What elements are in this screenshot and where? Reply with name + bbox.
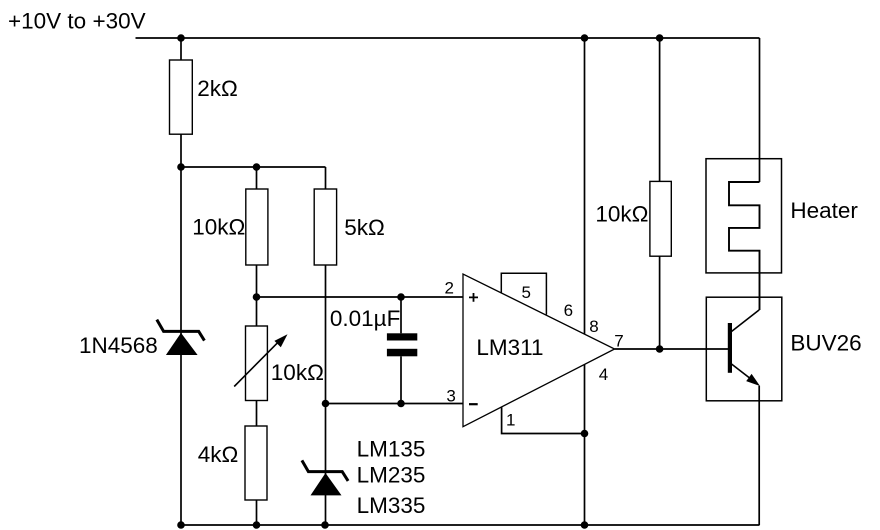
resistor R2 10k body <box>246 189 268 265</box>
potentiometer arrow shaft <box>234 340 280 387</box>
wire LM135 branch to ground rail <box>325 404 327 526</box>
wire pin2 horizontal <box>257 296 464 298</box>
node junction pin1 <box>581 430 589 438</box>
svg-text:Heater: Heater <box>790 198 858 223</box>
wire 10k left bottom <box>256 265 258 297</box>
wire pot to 4k <box>256 401 258 427</box>
wire 10k right bottom <box>659 256 661 349</box>
wire top supply rail <box>136 37 760 39</box>
wire node2 horizontal <box>181 166 326 168</box>
op-amp plus input marker <box>469 293 478 302</box>
node junction left node2 <box>177 163 185 171</box>
wire op-amp output <box>615 348 730 350</box>
wire 5k stub <box>325 167 327 189</box>
op-amp U1 LM311 triangle <box>463 274 615 427</box>
resistor R5 4k body <box>245 426 267 500</box>
node junction top-left <box>177 34 185 42</box>
wire 10k left stub <box>256 167 258 189</box>
transistor Q1 emitter down wire <box>758 386 760 525</box>
potentiometer arrowhead <box>274 334 287 347</box>
svg-text:5: 5 <box>521 283 530 302</box>
sensor LM135 triangle <box>311 473 342 495</box>
svg-text:7: 7 <box>614 331 623 350</box>
node junction output <box>656 345 664 353</box>
node junction 10k top <box>253 163 261 171</box>
wire bottom ground rail <box>181 524 760 526</box>
svg-text:4: 4 <box>599 365 608 384</box>
sensor LM135 cathode bar <box>302 460 348 481</box>
wire pin8/4 rail lower <box>584 365 586 526</box>
heater element meander <box>729 182 760 310</box>
svg-text:10kΩ: 10kΩ <box>271 360 324 385</box>
resistor R1 2k body <box>170 60 193 134</box>
node junction pot top / pin2 wire <box>253 293 261 301</box>
wire pot stub top <box>256 297 258 326</box>
wire 4k bottom <box>256 500 258 525</box>
wire pin3 horizontal <box>326 403 464 405</box>
wire left rail middle <box>180 134 182 525</box>
wire pin1 stub <box>502 407 585 433</box>
zener diode D1 1N4568 cathode bar <box>157 320 205 341</box>
svg-text:6: 6 <box>564 301 573 320</box>
op-amp minus input marker <box>469 403 478 405</box>
svg-text:8: 8 <box>589 317 598 336</box>
node junction bottom left <box>177 521 185 529</box>
svg-text:LM311: LM311 <box>476 335 543 360</box>
svg-text:4kΩ: 4kΩ <box>198 442 239 467</box>
svg-text:5kΩ: 5kΩ <box>344 215 385 240</box>
svg-text:1N4568: 1N4568 <box>79 333 158 358</box>
svg-text:+10V to +30V: +10V to +30V <box>8 9 146 34</box>
potentiometer R4 10k body <box>246 326 268 401</box>
transistor Q1 collector diagonal <box>732 310 760 332</box>
svg-text:2kΩ: 2kΩ <box>197 76 238 101</box>
svg-text:10kΩ: 10kΩ <box>192 215 245 240</box>
capacitor C1 top wire <box>400 297 402 333</box>
svg-text:LM235: LM235 <box>357 462 426 487</box>
svg-text:0.01µF: 0.01µF <box>330 306 401 331</box>
wire pin8/4 rail upper <box>584 38 586 334</box>
transistor Q1 box <box>706 297 782 401</box>
svg-text:3: 3 <box>446 387 455 406</box>
wire 10k right top <box>659 38 661 181</box>
svg-text:BUV26: BUV26 <box>790 330 861 355</box>
heater box <box>706 159 782 273</box>
node junction cap bottom <box>397 400 405 408</box>
node junction bottom LM135 <box>321 521 329 529</box>
transistor Q1 base bar <box>728 323 732 373</box>
svg-text:LM135: LM135 <box>357 437 426 462</box>
wire left rail upper stub <box>180 38 182 60</box>
svg-text:1: 1 <box>506 411 515 430</box>
capacitor C1 bottom plate <box>387 349 417 357</box>
resistor R3 5k body <box>314 189 336 265</box>
svg-text:LM335: LM335 <box>357 493 426 518</box>
node junction bottom pin4 rail <box>581 521 589 529</box>
node junction cap top <box>397 293 405 301</box>
wire 5k bottom to pin3 rail <box>325 265 327 404</box>
transistor Q1 emitter arrowhead <box>746 374 760 386</box>
resistor R6 10k body <box>650 181 671 256</box>
svg-text:2: 2 <box>445 278 454 297</box>
capacitor C1 bottom wire <box>400 356 402 403</box>
svg-text:10kΩ: 10kΩ <box>595 201 648 226</box>
wire heater feed from top rail <box>759 38 761 182</box>
zener diode D1 triangle <box>166 333 198 355</box>
node junction top pin8 rail <box>581 34 589 42</box>
pin 5 balance box <box>501 273 546 314</box>
node junction bottom 4k <box>253 521 261 529</box>
transistor Q1 emitter diagonal <box>732 364 758 384</box>
node junction top 10k right <box>656 34 664 42</box>
node junction pin3 / LM135 <box>322 400 330 408</box>
capacitor C1 top plate <box>387 333 417 340</box>
